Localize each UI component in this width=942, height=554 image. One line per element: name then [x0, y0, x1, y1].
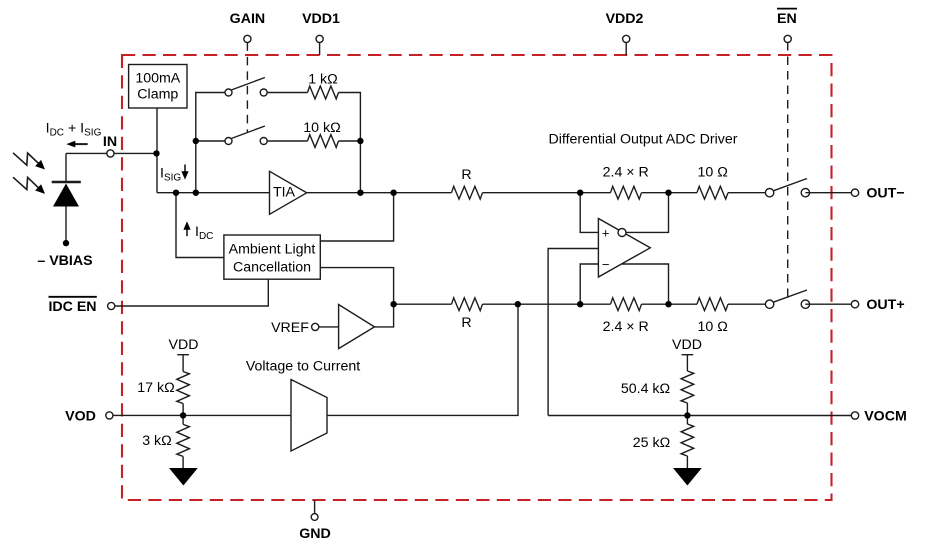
pin VDD1: [316, 35, 323, 55]
wire feedback into ambient block: [320, 193, 393, 241]
svg-text:17 kΩ: 17 kΩ: [137, 380, 174, 396]
pin IDC EN circle: [108, 302, 115, 309]
pin OUT+ circle: [851, 301, 858, 308]
svg-text:Cancellation: Cancellation: [233, 260, 311, 276]
wire feedback top (to inverting out bubble): [626, 193, 669, 233]
current arrow IDC+ISIG (left): [66, 141, 87, 148]
resistor 2.4xR (bottom): [611, 298, 642, 311]
svg-text:Voltage to Current: Voltage to Current: [246, 359, 360, 375]
wire IN row: [66, 152, 157, 154]
wire bottom signal row: [394, 303, 452, 305]
resistor 17 kOhm: [177, 372, 190, 404]
switch S1 (gain, 1k row): [225, 78, 308, 97]
op-amp FDA U2: [598, 219, 650, 278]
svg-text:100mA: 100mA: [135, 71, 180, 87]
wire clamp vertical to TIA row: [156, 107, 158, 193]
switch S4 (OUT+ disable): [765, 290, 809, 308]
ground (right divider): [673, 456, 702, 486]
wire IDC EN row: [115, 279, 269, 306]
wire 2.4R to 10ohm (bottom): [642, 303, 698, 305]
wire V2I output: [327, 304, 518, 415]
resistor 10 Ohm (top): [697, 186, 728, 199]
svg-text:1 kΩ: 1 kΩ: [308, 72, 338, 88]
pin IN circle: [107, 150, 114, 157]
pin VOCM circle: [851, 412, 858, 419]
svg-text:R: R: [461, 315, 471, 331]
resistor R (top): [452, 186, 483, 199]
resistor 10 Ohm (bottom): [697, 298, 728, 311]
wire to OUT- pin: [805, 192, 855, 194]
op-amp VREF buffer: [339, 305, 375, 349]
pin OUT- circle: [851, 189, 858, 196]
wire 17k to 3k: [182, 404, 184, 425]
chip boundary (red dashed): [122, 55, 832, 500]
wire row2 left: [196, 140, 229, 142]
switch S3 (OUT- disable): [765, 179, 809, 197]
op-amp TIA: [270, 171, 307, 214]
svg-text:TIA: TIA: [273, 185, 296, 201]
current arrow ISIG (down): [181, 165, 188, 180]
pin GAIN: [244, 35, 251, 42]
svg-text:GAIN: GAIN: [230, 11, 265, 27]
node VBIAS dot: [63, 240, 69, 246]
pin VOD circle: [106, 412, 113, 419]
light arrow 2: [13, 177, 45, 194]
wire FDA +input: [580, 193, 598, 233]
svg-text:IDC EN: IDC EN: [48, 299, 96, 315]
pin GND: [311, 500, 318, 520]
svg-text:R: R: [461, 167, 471, 183]
svg-text:EN: EN: [777, 11, 797, 27]
wire R to 2.4R (bottom): [483, 303, 611, 305]
svg-text:VOCM: VOCM: [864, 409, 907, 425]
wire VREF to buffer: [319, 326, 339, 328]
svg-text:Differential Output ADC Driver: Differential Output ADC Driver: [549, 132, 738, 148]
block V2I (voltage to current): [291, 380, 327, 452]
svg-text:2.4 × R: 2.4 × R: [603, 164, 649, 180]
resistor 10 kOhm: [308, 135, 339, 148]
svg-text:GND: GND: [299, 526, 331, 542]
wire ambient input: [176, 193, 224, 258]
svg-text:50.4 kΩ: 50.4 kΩ: [621, 381, 670, 397]
svg-text:– VBIAS: – VBIAS: [37, 253, 92, 269]
svg-text:OUT+: OUT+: [866, 297, 904, 313]
wire VOCM row: [548, 415, 855, 417]
light arrow 1: [13, 153, 45, 170]
block Ambient Light Cancellation: [224, 235, 320, 279]
resistor 2.4xR (top): [611, 186, 642, 199]
wire FDA vocm input: [548, 249, 598, 416]
pin GAIN dashed control line: [246, 42, 248, 132]
svg-text:VDD: VDD: [672, 337, 702, 353]
wire ambient output to vref node: [320, 268, 393, 305]
wire buffer output: [375, 304, 394, 327]
resistor 1 kOhm: [308, 86, 339, 99]
switch S2 (gain, 10k row): [225, 126, 308, 145]
svg-text:3 kΩ: 3 kΩ: [142, 433, 172, 449]
resistor R (bottom): [452, 298, 483, 311]
wire to OUT+ pin: [805, 303, 855, 305]
svg-text:−: −: [602, 257, 610, 272]
pin EN dashed control line: [787, 42, 789, 298]
wire switch-bank left rail: [196, 93, 229, 193]
block 100mA Clamp: [129, 65, 187, 109]
svg-text:IN: IN: [103, 134, 117, 150]
photodiode D1: [52, 153, 81, 243]
svg-text:25 kΩ: 25 kΩ: [633, 435, 670, 451]
svg-text:Clamp: Clamp: [137, 86, 178, 102]
svg-text:Ambient Light: Ambient Light: [229, 242, 316, 258]
wire TIA input row: [157, 192, 270, 194]
svg-text:OUT−: OUT−: [866, 186, 904, 202]
current arrow IDC (up): [183, 221, 190, 236]
svg-text:VDD: VDD: [169, 337, 199, 353]
wire VOD row: [113, 414, 291, 416]
pin VREF circle: [312, 323, 319, 330]
wire FDA -input: [580, 264, 598, 304]
pin VDD2: [623, 35, 630, 55]
wire R to 2.4R (top): [483, 192, 611, 194]
FDA output bubble: [618, 229, 626, 237]
wire 10ohm to switch (top): [728, 192, 770, 194]
svg-text:VDD1: VDD1: [302, 11, 340, 27]
wire 10ohm to switch (bottom): [728, 303, 770, 305]
wire 2.4R to 10ohm (top): [642, 192, 698, 194]
VDD rail left: [177, 355, 189, 372]
svg-text:10 Ω: 10 Ω: [698, 319, 728, 335]
VDD rail right: [682, 355, 694, 371]
resistor 50.4 kOhm: [681, 371, 694, 403]
svg-text:10 kΩ: 10 kΩ: [303, 120, 340, 136]
wire TIA output row: [307, 192, 452, 194]
svg-text:2.4 × R: 2.4 × R: [603, 319, 649, 335]
resistor 3 kOhm: [177, 424, 190, 456]
wire 10k to right rail: [339, 140, 361, 142]
ground (left divider): [169, 456, 198, 485]
svg-text:VOD: VOD: [65, 408, 96, 424]
svg-text:+: +: [602, 226, 610, 241]
wire feedback bottom: [622, 264, 669, 304]
svg-text:VREF: VREF: [271, 320, 309, 336]
wire 1k to right rail: [339, 93, 361, 193]
svg-text:10 Ω: 10 Ω: [698, 164, 728, 180]
wire 50.4k to node: [686, 403, 688, 424]
pin EN circle: [784, 35, 791, 42]
svg-text:VDD2: VDD2: [606, 11, 644, 27]
resistor 25 kOhm: [681, 424, 694, 456]
